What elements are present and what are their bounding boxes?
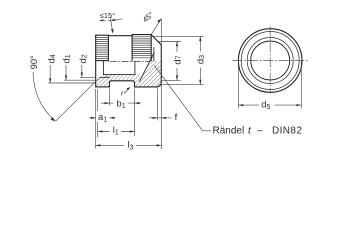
svg-text:90°: 90° bbox=[28, 55, 39, 69]
svg-text:–: – bbox=[257, 125, 263, 136]
svg-text:f: f bbox=[175, 111, 178, 122]
svg-text:DIN82: DIN82 bbox=[272, 125, 302, 136]
svg-text:≤15°: ≤15° bbox=[100, 11, 115, 20]
svg-text:Rändel: Rändel bbox=[213, 125, 245, 136]
